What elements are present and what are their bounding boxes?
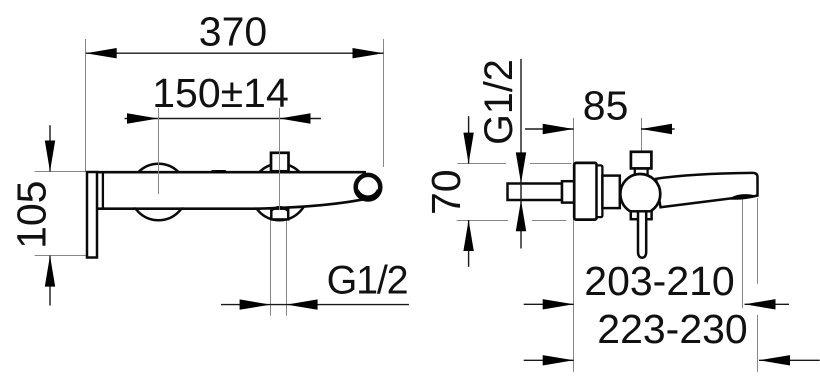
svg-text:G1/2: G1/2 — [327, 259, 408, 303]
svg-text:70: 70 — [423, 169, 469, 215]
svg-text:G1/2: G1/2 — [477, 59, 521, 145]
svg-text:85: 85 — [583, 83, 629, 129]
svg-text:370: 370 — [199, 8, 267, 54]
svg-text:223-230: 223-230 — [597, 306, 747, 352]
svg-text:150±14: 150±14 — [152, 70, 289, 116]
svg-text:203-210: 203-210 — [584, 258, 734, 304]
svg-text:105: 105 — [8, 180, 54, 248]
